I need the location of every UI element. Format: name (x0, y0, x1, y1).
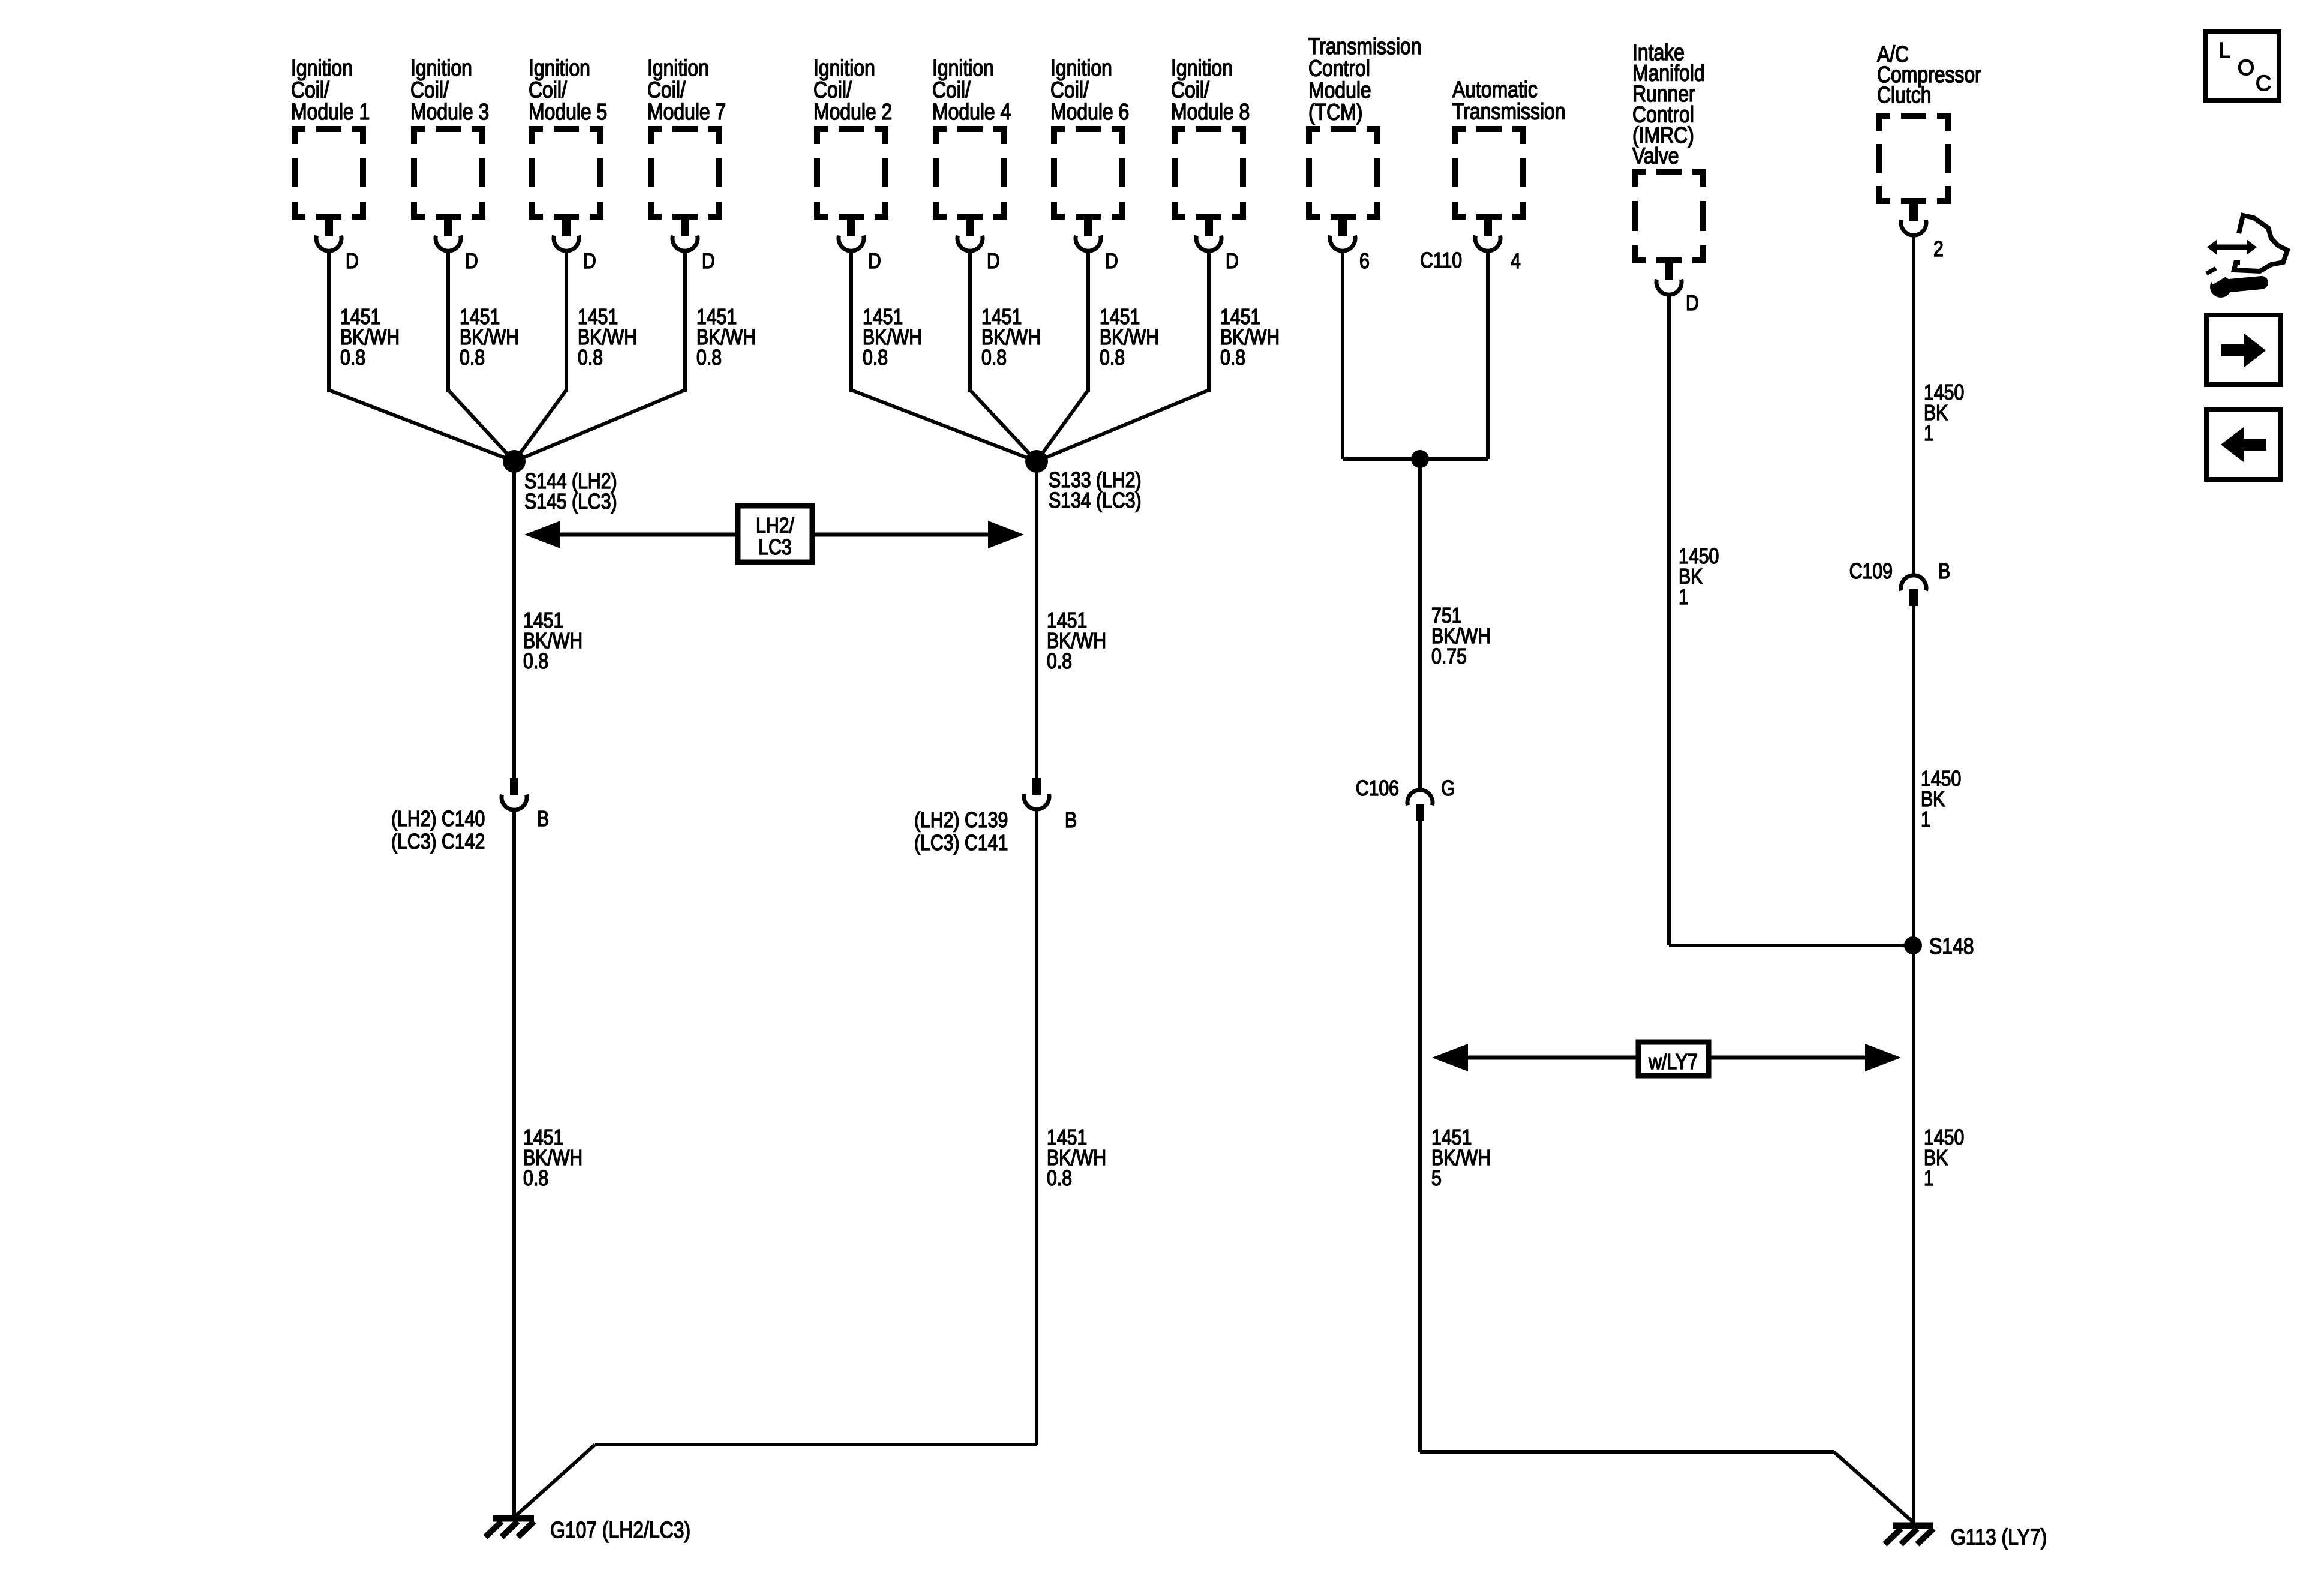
svg-text:0.8: 0.8 (1047, 1167, 1072, 1191)
svg-text:D: D (465, 250, 478, 274)
svg-text:G107 (LH2/LC3): G107 (LH2/LC3) (550, 1517, 690, 1542)
svg-text:1: 1 (1679, 586, 1689, 610)
svg-text:Module 2: Module 2 (813, 99, 892, 124)
svg-text:0.8: 0.8 (460, 346, 485, 370)
svg-text:0.8: 0.8 (1100, 346, 1125, 370)
svg-text:D: D (346, 250, 359, 274)
svg-text:(TCM): (TCM) (1308, 100, 1362, 125)
svg-text:D: D (987, 250, 1000, 274)
svg-text:S145 (LC3): S145 (LC3) (524, 490, 617, 514)
svg-text:0.8: 0.8 (1220, 346, 1245, 370)
svg-text:1: 1 (1924, 422, 1934, 446)
svg-text:C106: C106 (1356, 777, 1399, 801)
svg-text:S148: S148 (1929, 933, 1974, 959)
svg-text:Module 5: Module 5 (529, 99, 607, 124)
svg-text:D: D (702, 250, 715, 274)
svg-text:(LC3) C141: (LC3) C141 (914, 831, 1008, 855)
svg-text:B: B (537, 807, 549, 831)
svg-text:0.8: 0.8 (523, 650, 548, 674)
svg-text:(LH2) C139: (LH2) C139 (914, 809, 1008, 833)
svg-text:C: C (2256, 71, 2271, 95)
svg-text:5: 5 (1431, 1167, 1442, 1191)
svg-text:0.8: 0.8 (340, 346, 365, 370)
svg-text:D: D (868, 250, 881, 274)
svg-text:0.8: 0.8 (981, 346, 1007, 370)
svg-text:D: D (1226, 250, 1239, 274)
svg-text:0.8: 0.8 (863, 346, 888, 370)
svg-text:G113 (LY7): G113 (LY7) (1951, 1524, 2047, 1550)
svg-text:(LH2) C140: (LH2) C140 (391, 807, 485, 831)
svg-text:D: D (583, 250, 596, 274)
svg-text:(LC3) C142: (LC3) C142 (391, 830, 485, 854)
svg-text:1: 1 (1921, 808, 1931, 832)
svg-text:1: 1 (1924, 1167, 1934, 1191)
svg-text:L: L (2218, 38, 2230, 62)
svg-text:Module 3: Module 3 (410, 99, 489, 124)
svg-text:G: G (1441, 777, 1455, 801)
svg-text:4: 4 (1511, 250, 1521, 274)
svg-text:Clutch: Clutch (1877, 82, 1931, 107)
svg-text:Transmission: Transmission (1452, 99, 1566, 124)
svg-text:0.8: 0.8 (578, 346, 603, 370)
svg-text:Valve: Valve (1632, 143, 1679, 169)
svg-text:Module 7: Module 7 (647, 99, 726, 124)
svg-text:O: O (2238, 55, 2254, 80)
svg-text:0.75: 0.75 (1431, 645, 1467, 669)
svg-text:0.8: 0.8 (523, 1167, 548, 1191)
svg-text:C110: C110 (1420, 249, 1462, 273)
svg-text:LC3: LC3 (758, 536, 791, 560)
svg-text:C109: C109 (1849, 560, 1893, 584)
svg-text:D: D (1105, 250, 1118, 274)
svg-text:Module 8: Module 8 (1171, 99, 1250, 124)
svg-text:Module 6: Module 6 (1050, 99, 1129, 124)
svg-text:2: 2 (1933, 238, 1944, 262)
svg-text:w/LY7: w/LY7 (1648, 1050, 1698, 1074)
svg-text:B: B (1065, 809, 1077, 833)
svg-text:LH2/: LH2/ (756, 514, 795, 538)
svg-text:0.8: 0.8 (1047, 650, 1072, 674)
svg-text:B: B (1938, 560, 1950, 584)
svg-text:Module 4: Module 4 (932, 99, 1011, 124)
svg-text:D: D (1686, 292, 1699, 316)
svg-text:Module 1: Module 1 (291, 99, 370, 124)
svg-text:6: 6 (1359, 250, 1370, 274)
svg-text:S134 (LC3): S134 (LC3) (1049, 489, 1142, 513)
svg-text:0.8: 0.8 (696, 346, 722, 370)
